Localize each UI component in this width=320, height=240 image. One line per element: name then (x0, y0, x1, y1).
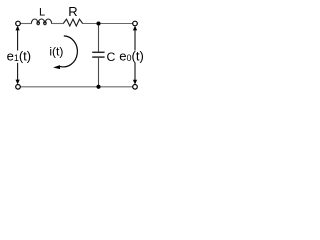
current loop arrowhead (53, 65, 60, 69)
voltage arrow e0 lower head (points down at terminal) (133, 80, 137, 85)
voltage arrow e1 upper head (points up at terminal) (16, 26, 20, 31)
wire between inductor and resistor (51, 23, 63, 25)
resistor R (63, 19, 82, 26)
terminal bottom-left (16, 85, 21, 90)
voltage arrow e0 upper head (points up at terminal) (133, 26, 137, 31)
voltage arrow e1 lower shaft (17, 63, 19, 81)
node bottom junction (96, 85, 100, 89)
terminal top-right (133, 21, 138, 26)
current loop arrow i(t) arc (60, 36, 78, 67)
terminal bottom-right (133, 85, 138, 90)
svg-text:e1(t): e1(t) (7, 49, 32, 64)
voltage arrow e0 lower shaft (134, 63, 136, 81)
voltage arrow e0 upper shaft (134, 29, 136, 51)
wire capacitor branch upper (98, 24, 100, 52)
svg-text:R: R (68, 4, 77, 19)
wire capacitor branch lower (98, 58, 100, 87)
voltage arrow e1 lower head (points down at terminal) (16, 80, 20, 85)
svg-text:L: L (39, 7, 45, 19)
voltage arrow e1 upper shaft (17, 29, 19, 51)
terminal top-left (16, 21, 21, 26)
svg-text:e0(t): e0(t) (119, 49, 144, 64)
wire top from input terminal to inductor (20, 23, 32, 25)
wire bottom rail (20, 86, 133, 88)
svg-text:C: C (107, 50, 116, 64)
svg-text:i(t): i(t) (49, 44, 63, 58)
wire from resistor through node to output terminal (83, 23, 133, 25)
node top junction (96, 21, 100, 25)
capacitor C (92, 52, 104, 57)
inductor L (31, 19, 51, 25)
